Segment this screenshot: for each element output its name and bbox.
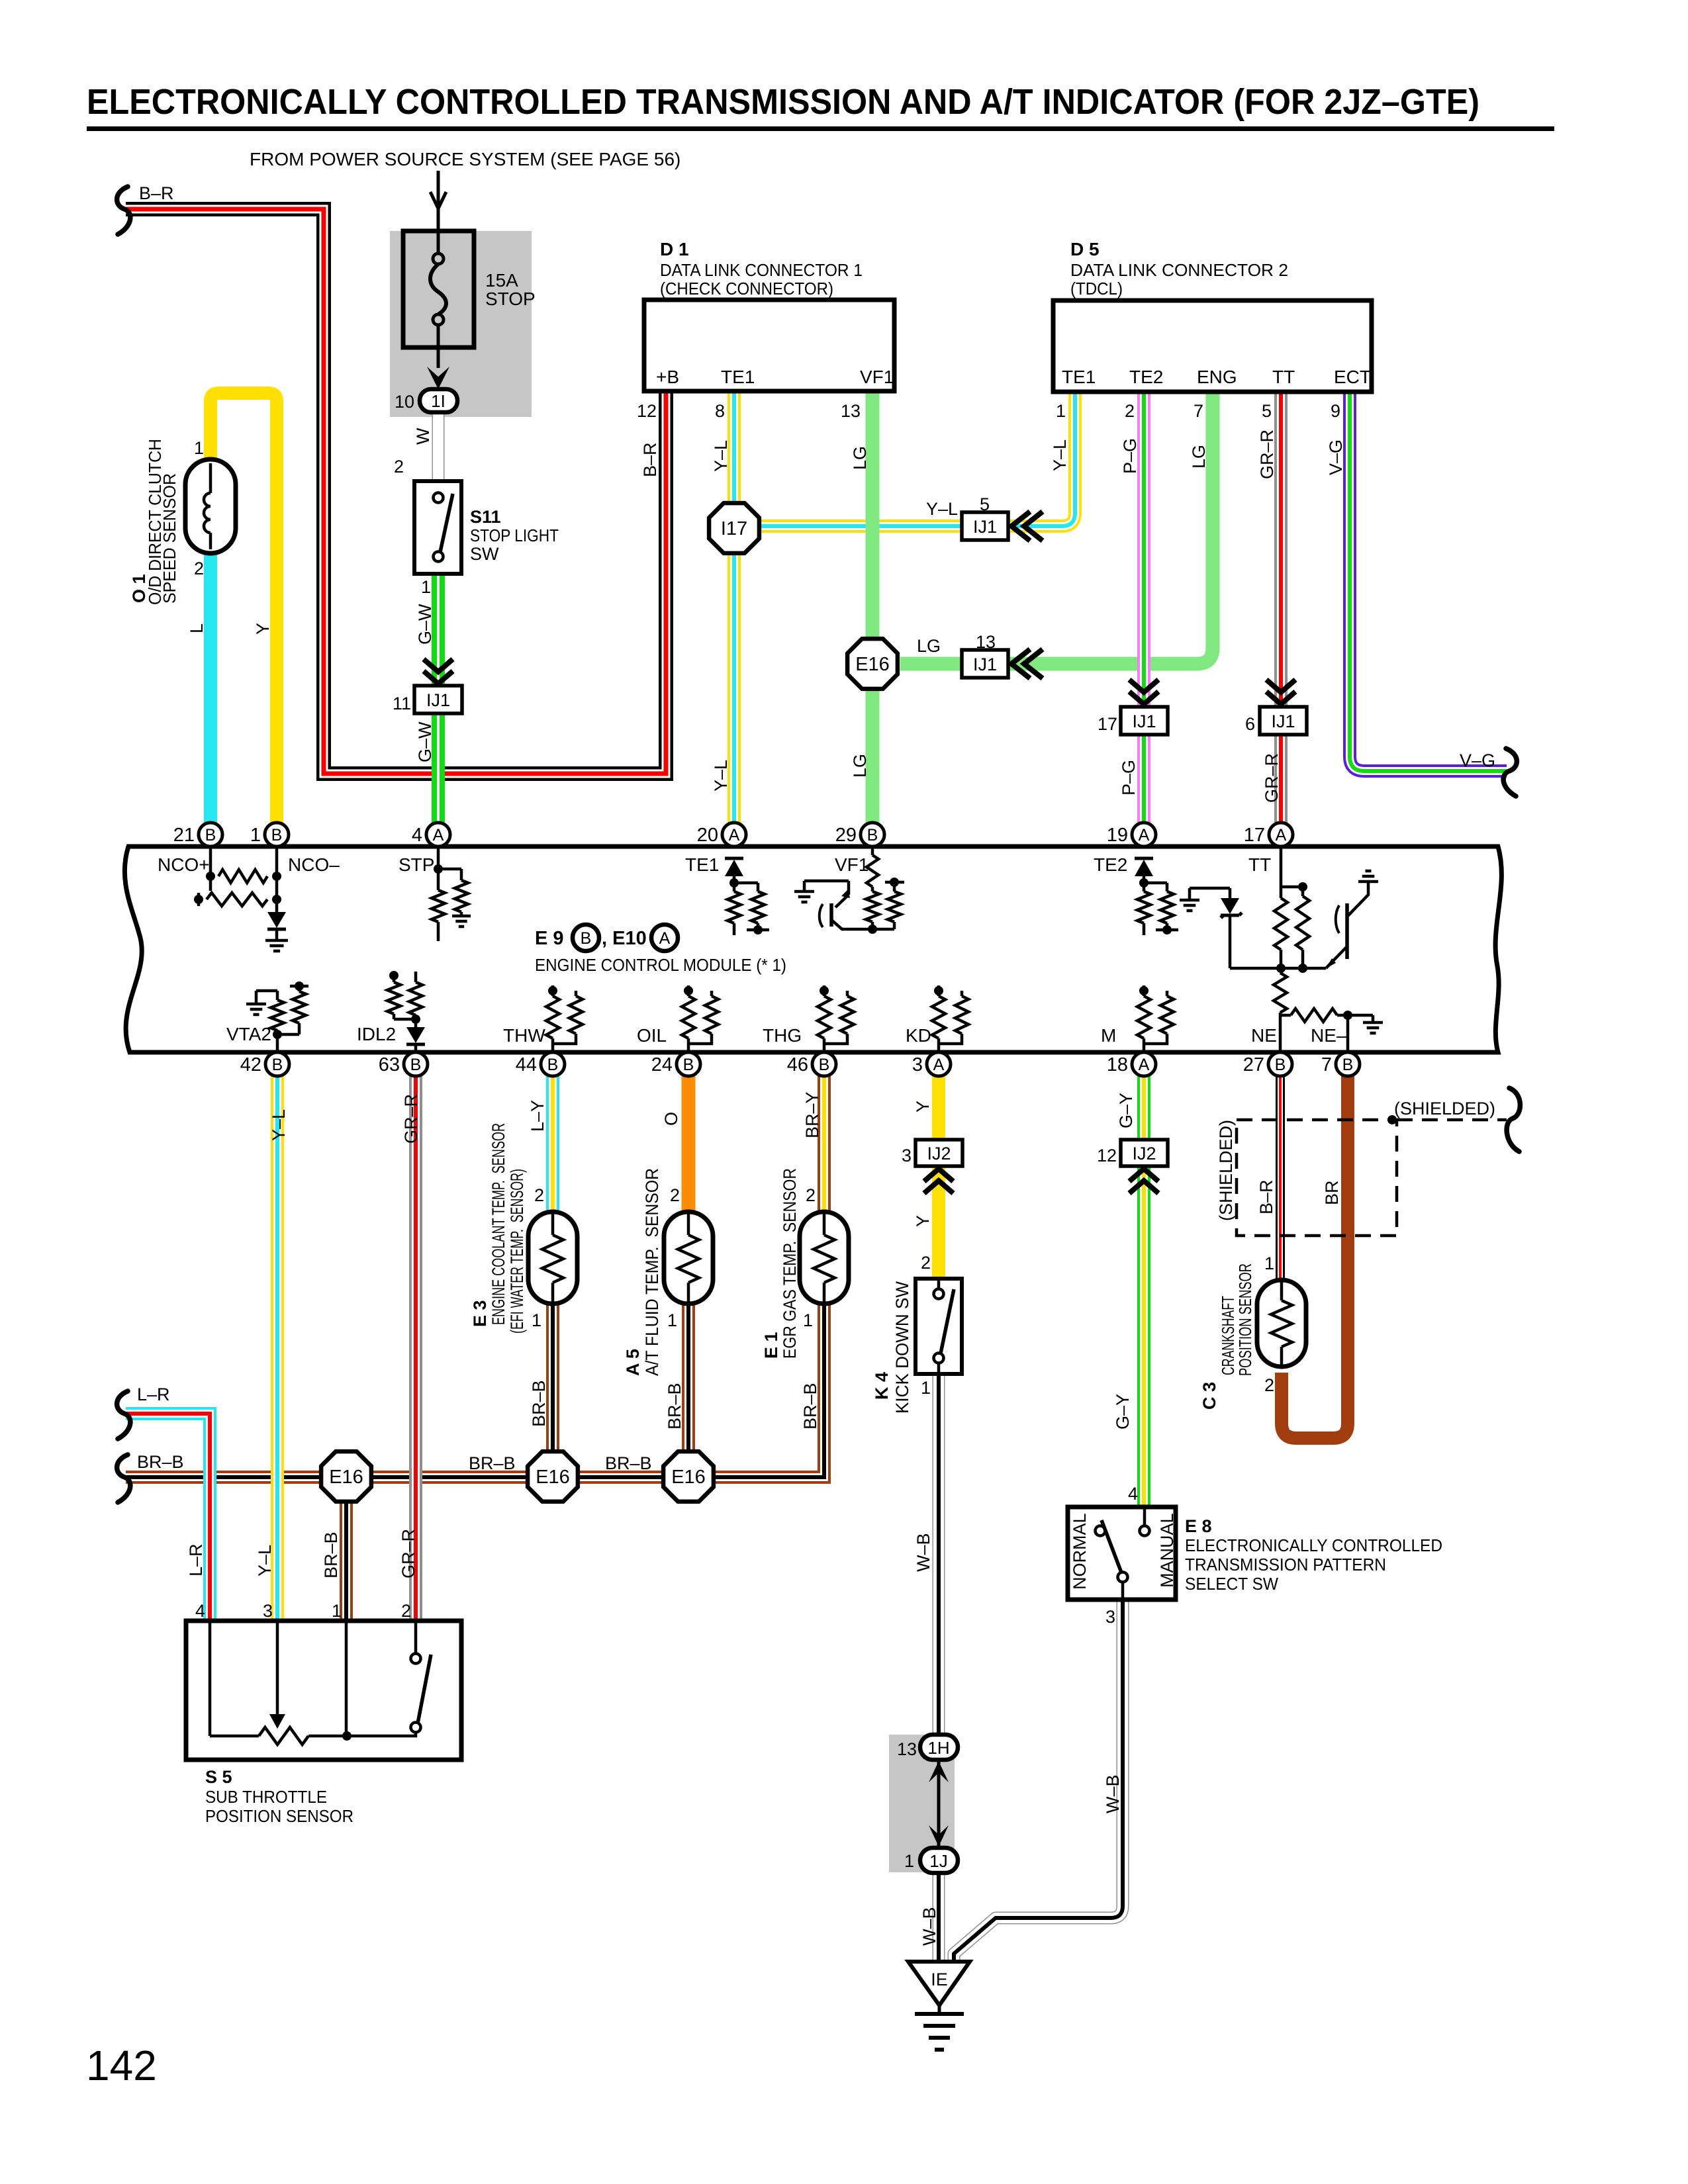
junction IJ1 pin17 on P-G: [1129, 680, 1158, 704]
ECM bottom pin B7: [1336, 1052, 1360, 1076]
svg-text:(CHECK CONNECTOR): (CHECK CONNECTOR): [660, 279, 833, 298]
svg-text:B–R: B–R: [640, 442, 660, 477]
svg-text:SELECT SW: SELECT SW: [1185, 1574, 1278, 1594]
svg-text:ENG: ENG: [1197, 367, 1237, 387]
shielded dashed line to break: [1397, 1118, 1507, 1122]
svg-text:IJ2: IJ2: [1132, 1144, 1156, 1163]
svg-text:LG: LG: [850, 754, 870, 778]
svg-text:Y–L: Y–L: [255, 1545, 275, 1576]
svg-text:2: 2: [394, 457, 404, 477]
svg-text:NORMAL: NORMAL: [1070, 1513, 1090, 1590]
component A5 AT fluid temp sensor: [664, 1212, 713, 1304]
ECM bottom pin B24: [677, 1052, 700, 1076]
svg-text:IJ1: IJ1: [973, 655, 997, 674]
svg-text:B: B: [819, 1056, 830, 1074]
svg-text:24: 24: [651, 1054, 673, 1075]
svg-text:A: A: [433, 826, 444, 844]
svg-text:MANUAL: MANUAL: [1157, 1513, 1177, 1588]
svg-text:7: 7: [1194, 401, 1203, 421]
svg-text:IJ1: IJ1: [973, 517, 997, 537]
svg-text:B: B: [410, 1056, 422, 1074]
svg-text:STOP LIGHT: STOP LIGHT: [470, 525, 559, 545]
gray background fuse area: [390, 231, 532, 417]
svg-text:63: 63: [379, 1054, 400, 1075]
svg-text:ELECTRONICALLY CONTROLLED: ELECTRONICALLY CONTROLLED: [1185, 1535, 1442, 1555]
svg-text:IDL2: IDL2: [357, 1024, 396, 1044]
wire W-B 1J to IE ground: [933, 1873, 945, 1963]
fuse 15A STOP: [403, 231, 474, 347]
wire BR crankshaft sensor loop to ECM B7: [1282, 1076, 1348, 1438]
svg-text:VF1: VF1: [835, 854, 868, 875]
wire B-R power feed U to D1 +B: [126, 209, 666, 774]
ECM top pin B1: [265, 823, 289, 846]
svg-text:11: 11: [393, 694, 411, 713]
svg-text:6: 6: [1245, 714, 1255, 734]
svg-text:5: 5: [1262, 401, 1272, 421]
svg-text:FROM POWER SOURCE SYSTEM (SEE: FROM POWER SOURCE SYSTEM (SEE PAGE 56): [250, 149, 680, 169]
svg-text:1: 1: [332, 1601, 342, 1621]
svg-text:ENGINE CONTROL MODULE (* 1): ENGINE CONTROL MODULE (* 1): [535, 955, 786, 975]
svg-text:IJ2: IJ2: [927, 1144, 951, 1163]
ECM bottom pin A18: [1132, 1052, 1156, 1076]
svg-text:DATA LINK CONNECTOR 1: DATA LINK CONNECTOR 1: [660, 260, 863, 280]
svg-text:LG: LG: [850, 446, 870, 470]
svg-text:1: 1: [250, 825, 261, 846]
wire W fuse 1I to stop light switch: [432, 412, 445, 481]
arrow into 1I: [427, 367, 449, 389]
svg-text:2: 2: [806, 1185, 816, 1205]
switch K4 kick down: [915, 1279, 962, 1374]
svg-text:13: 13: [841, 401, 861, 421]
svg-text:TE1: TE1: [721, 367, 755, 387]
svg-text:E16: E16: [855, 654, 890, 675]
ECM internal STP circuit: [437, 846, 440, 890]
svg-text:7: 7: [1321, 1054, 1332, 1075]
svg-text:A: A: [933, 1056, 945, 1074]
ECM internal TE1 circuit: [725, 857, 743, 860]
svg-text:B: B: [272, 1056, 283, 1074]
wire B-R ECM B27 to crankshaft sensor pin1: [1276, 1076, 1285, 1280]
svg-text:42: 42: [240, 1054, 261, 1075]
svg-text:E 9: E 9: [535, 928, 564, 949]
svg-text:2: 2: [670, 1185, 680, 1205]
wire BR-B coolant sensor to bus: [546, 1304, 559, 1477]
title rule: [87, 126, 1554, 131]
svg-text:4: 4: [412, 825, 422, 846]
ECM internal NE- circuit: [1346, 1015, 1350, 1052]
wire Y ECM A3 to kick down switch pin2: [932, 1076, 945, 1279]
svg-text:1: 1: [667, 1310, 677, 1330]
svg-text:STOP: STOP: [485, 289, 536, 309]
svg-text:G–Y: G–Y: [1116, 1093, 1136, 1128]
ground symbol below IE: [915, 2012, 964, 2016]
ECM bottom pin A3: [927, 1052, 951, 1076]
wire O ECM B24 to AT fluid sensor pin2: [682, 1076, 696, 1212]
component C3 crankshaft position sensor: [1257, 1280, 1306, 1367]
svg-text:2: 2: [194, 559, 204, 578]
mating arrows between 1H and 1J: [937, 1760, 941, 1848]
junction IJ1 pin5 with chevron: [962, 512, 1008, 540]
svg-text:L–R: L–R: [186, 1543, 206, 1576]
svg-text:12: 12: [637, 401, 657, 421]
svg-text:BR: BR: [1322, 1180, 1342, 1205]
wire W-B E8 pin3 to IE ground: [954, 1600, 1123, 1963]
svg-text:POSITION SENSOR: POSITION SENSOR: [205, 1806, 353, 1826]
svg-text:LG: LG: [917, 636, 941, 656]
svg-text:1: 1: [421, 577, 431, 597]
ECM bottom pin B46: [812, 1052, 836, 1076]
wire Y O1 pin1 to ECM B1: [211, 393, 277, 823]
svg-text:18: 18: [1107, 1054, 1128, 1075]
svg-text:POSITION SENSOR: POSITION SENSOR: [1235, 1263, 1255, 1376]
svg-text:10: 10: [395, 392, 414, 412]
junction ovals 1H and 1J: [920, 1735, 958, 1760]
svg-text:A: A: [1139, 1056, 1150, 1074]
svg-text:2: 2: [1264, 1375, 1274, 1395]
svg-text:3: 3: [912, 1054, 923, 1075]
svg-text:KD: KD: [906, 1025, 931, 1046]
svg-text:1H: 1H: [927, 1738, 949, 1758]
svg-text:M: M: [1101, 1025, 1116, 1046]
svg-text:(TDCL): (TDCL): [1070, 279, 1123, 298]
svg-text:TE1: TE1: [1062, 367, 1096, 387]
wire G-Y ECM A18 to E8 pin4: [1137, 1076, 1150, 1507]
wire L O1 pin2 to ECM B21: [204, 553, 217, 823]
svg-text:12: 12: [1097, 1146, 1117, 1165]
ECM internal resistor pairs THW OIL THG KD M: [551, 1038, 555, 1052]
svg-text:E16: E16: [536, 1467, 570, 1488]
ECM top pin A20: [722, 823, 746, 846]
svg-text:13: 13: [897, 1739, 917, 1759]
svg-text:IJ1: IJ1: [1132, 711, 1156, 731]
svg-text:NE: NE: [1251, 1025, 1277, 1046]
ECM internal IDL2 circuit: [414, 1044, 418, 1052]
svg-text:3: 3: [1105, 1607, 1115, 1627]
svg-text:K 4: K 4: [872, 1372, 892, 1400]
ECM bottom pin B63: [404, 1052, 428, 1076]
component E1 EGR gas temp sensor: [800, 1212, 849, 1304]
break symbol L-R left: [117, 1391, 130, 1439]
svg-text:V–G: V–G: [1326, 439, 1346, 475]
ECM internal VF1 circuit: [871, 846, 874, 855]
ECM bottom pin B27: [1268, 1052, 1292, 1076]
svg-text:E16: E16: [329, 1467, 363, 1488]
svg-text:GR–R: GR–R: [401, 1094, 421, 1144]
svg-text:A: A: [729, 826, 740, 844]
junction IJ1 pin6 on GR-R: [1266, 680, 1295, 704]
svg-text:OIL: OIL: [637, 1025, 667, 1046]
svg-text:W: W: [413, 428, 433, 445]
svg-text:P–G: P–G: [1120, 438, 1140, 474]
svg-text:VF1: VF1: [860, 367, 894, 387]
svg-text:E 8: E 8: [1185, 1516, 1212, 1536]
svg-text:Y–L: Y–L: [269, 1109, 289, 1141]
svg-text:B: B: [581, 929, 592, 948]
svg-text:P–G: P–G: [1119, 760, 1139, 796]
svg-text:44: 44: [516, 1054, 537, 1075]
switch E8 ECT pattern select: [1068, 1507, 1176, 1600]
svg-text:13: 13: [976, 632, 996, 652]
wire L-R break to S5 pin4: [126, 1414, 210, 1621]
wire G-W stop light switch to ECM STP A4: [432, 574, 445, 823]
svg-text:B–R: B–R: [139, 183, 174, 203]
svg-text:NCO+: NCO+: [158, 854, 210, 875]
svg-text:EGR GAS TEMP. SENSOR: EGR GAS TEMP. SENSOR: [780, 1168, 800, 1359]
switch S11 stop light: [414, 481, 461, 574]
wire Y-L I17 to ECM A20: [727, 553, 741, 823]
ECM top pin A19: [1132, 823, 1156, 846]
svg-text:1: 1: [1056, 401, 1066, 421]
svg-text:TE1: TE1: [685, 854, 719, 875]
svg-text:Y–L: Y–L: [1050, 439, 1070, 471]
svg-text:G–W: G–W: [415, 604, 435, 645]
svg-text:1: 1: [1264, 1253, 1274, 1273]
svg-text:(SHIELDED): (SHIELDED): [1216, 1120, 1236, 1221]
wire BR-Y ECM B46 to EGR sensor pin2: [818, 1076, 831, 1212]
svg-text:17: 17: [1098, 714, 1117, 734]
svg-text:(SHIELDED): (SHIELDED): [1394, 1099, 1495, 1118]
svg-text:THG: THG: [763, 1025, 802, 1046]
junction IJ2 pin12 on G-Y: [1121, 1140, 1168, 1166]
svg-text:20: 20: [697, 825, 718, 846]
svg-text:S11: S11: [470, 507, 501, 527]
ECM internal VTA2 circuit: [276, 1030, 279, 1052]
svg-text:STP: STP: [399, 854, 434, 875]
ECM top pin A4: [426, 823, 450, 846]
svg-text:D 5: D 5: [1070, 239, 1100, 259]
svg-text:B: B: [1275, 1056, 1286, 1074]
svg-text:G–Y: G–Y: [1113, 1394, 1133, 1430]
junction E16 on VF1 line: [847, 639, 898, 689]
wire LG E16 via IJ1 junction 13 to D5 ENG pin7: [900, 392, 1213, 664]
svg-text:E16: E16: [671, 1467, 706, 1488]
svg-text:2: 2: [921, 1253, 931, 1273]
wire Y-L D1 TE1 pin8 to I17: [727, 391, 741, 503]
junction IJ1 pin13 with chevron: [962, 650, 1008, 678]
svg-text:3: 3: [263, 1601, 273, 1621]
svg-text:5: 5: [980, 494, 990, 514]
svg-text:B: B: [205, 826, 216, 844]
svg-text:1: 1: [921, 1378, 931, 1398]
svg-text:C 3: C 3: [1199, 1382, 1219, 1410]
svg-text:BR–Y: BR–Y: [802, 1091, 822, 1138]
svg-text:17: 17: [1244, 825, 1265, 846]
wire GR-R ECM B63 to S5 pin2: [409, 1076, 422, 1621]
svg-text:SUB THROTTLE: SUB THROTTLE: [205, 1787, 327, 1807]
svg-text:TT: TT: [1248, 854, 1271, 875]
svg-text:SPEED SENSOR: SPEED SENSOR: [160, 473, 179, 604]
svg-text:NCO–: NCO–: [288, 854, 340, 875]
svg-text:G–W: G–W: [415, 721, 435, 762]
svg-text:ELECTRONICALLY CONTROLLED TRAN: ELECTRONICALLY CONTROLLED TRANSMISSION A…: [87, 82, 1479, 122]
svg-text:E 3: E 3: [470, 1300, 490, 1327]
svg-text:4: 4: [1128, 1484, 1138, 1504]
gray background 1H/1J junction area: [889, 1735, 955, 1872]
svg-text:Y: Y: [253, 623, 273, 635]
svg-text:THW: THW: [503, 1025, 545, 1046]
svg-text:E 1: E 1: [761, 1332, 781, 1359]
svg-text:GR–R: GR–R: [1262, 753, 1282, 803]
svg-text:W–B: W–B: [1103, 1774, 1123, 1813]
svg-text:GR–R: GR–R: [1257, 430, 1277, 479]
svg-text:A: A: [659, 929, 671, 948]
svg-text:1: 1: [532, 1310, 541, 1330]
svg-text:, E10: , E10: [602, 928, 647, 949]
svg-text:Y: Y: [913, 1215, 933, 1227]
svg-text:W–B: W–B: [919, 1907, 939, 1946]
svg-text:9: 9: [1331, 401, 1340, 421]
svg-text:TRANSMISSION PATTERN: TRANSMISSION PATTERN: [1185, 1555, 1386, 1574]
svg-text:IE: IE: [931, 1970, 948, 1989]
svg-text:TE2: TE2: [1094, 854, 1127, 875]
svg-text:27: 27: [1243, 1054, 1264, 1075]
break symbol B-R left: [117, 187, 130, 234]
svg-text:Y–L: Y–L: [711, 440, 731, 472]
power source feed arrow: [437, 171, 440, 231]
svg-text:S 5: S 5: [205, 1767, 232, 1787]
svg-text:2: 2: [401, 1601, 411, 1621]
svg-text:1: 1: [194, 438, 204, 458]
svg-text:3: 3: [902, 1146, 912, 1165]
svg-text:B: B: [867, 826, 878, 844]
svg-text:BR–B: BR–B: [321, 1531, 341, 1578]
svg-text:L–R: L–R: [137, 1385, 170, 1404]
connector D1 data link connector 1: [644, 300, 894, 391]
svg-text:BR–B: BR–B: [529, 1380, 549, 1427]
svg-text:B: B: [683, 1056, 694, 1074]
wire LG E16 to ECM B29: [866, 689, 880, 823]
svg-text:I17: I17: [721, 518, 747, 539]
svg-text:1J: 1J: [929, 1851, 947, 1871]
junction E16 bus 2: [528, 1451, 578, 1502]
svg-text:LG: LG: [1189, 445, 1209, 469]
svg-text:ECT: ECT: [1334, 367, 1371, 387]
svg-text:19: 19: [1107, 825, 1128, 846]
svg-text:VTA2: VTA2: [226, 1024, 271, 1044]
junction I17: [709, 503, 759, 553]
wire Y-L ECM B42 to S5 pin3: [271, 1076, 284, 1621]
svg-text:Y: Y: [913, 1101, 933, 1113]
svg-text:BR–B: BR–B: [605, 1453, 652, 1473]
svg-text:A/T FLUID TEMP. SENSOR: A/T FLUID TEMP. SENSOR: [642, 1168, 662, 1376]
svg-text:A: A: [1276, 826, 1287, 844]
svg-text:IJ1: IJ1: [1271, 711, 1295, 731]
junction IJ1 pin11 on G-W: [424, 659, 453, 684]
svg-text:TT: TT: [1272, 367, 1295, 387]
wire W-B kick down switch pin1 to 1H: [933, 1374, 945, 1735]
wire P-G D5 TE2 pin2 to ECM A19: [1137, 392, 1150, 823]
connector D5 data link connector 2: [1053, 300, 1372, 392]
svg-text:Y–L: Y–L: [711, 760, 731, 792]
svg-text:Y–L: Y–L: [926, 499, 958, 519]
svg-text:KICK DOWN SW: KICK DOWN SW: [892, 1281, 912, 1414]
svg-text:V–G: V–G: [1460, 751, 1495, 770]
svg-text:BR–B: BR–B: [469, 1453, 516, 1473]
svg-text:B: B: [271, 826, 283, 844]
svg-text:GR–R: GR–R: [399, 1529, 418, 1578]
ECM internal NE circuit: [1279, 1013, 1282, 1052]
svg-text:B–R: B–R: [1256, 1179, 1276, 1214]
svg-text:SW: SW: [470, 544, 499, 564]
wire Y-L I17 via IJ1 junction 5 to D5 TE1 pin1: [759, 392, 1075, 526]
component S5 sub throttle position sensor: [186, 1621, 461, 1760]
ECM bottom pin B44: [541, 1052, 565, 1076]
wire V-G D5 ECT pin9 to break: [1350, 392, 1507, 771]
svg-text:1: 1: [904, 1851, 914, 1871]
svg-text:DATA LINK CONNECTOR 2: DATA LINK CONNECTOR 2: [1070, 260, 1288, 280]
svg-text:A 5: A 5: [623, 1349, 643, 1376]
ECM top pin B29: [861, 823, 884, 846]
svg-text:2: 2: [1125, 401, 1135, 421]
svg-text:8: 8: [715, 401, 725, 421]
svg-text:21: 21: [173, 825, 195, 846]
wire GR-R D5 TT pin5 to ECM A17: [1274, 392, 1288, 823]
svg-text:L–Y: L–Y: [528, 1100, 547, 1132]
wire LG D1 VF1 pin13 to E16: [866, 391, 880, 639]
ECM internal TE2 circuit: [1135, 857, 1153, 860]
svg-text:W–B: W–B: [914, 1533, 933, 1572]
svg-text:29: 29: [835, 825, 857, 846]
svg-text:BR–B: BR–B: [800, 1383, 820, 1430]
ground IE triangle: [908, 1962, 970, 2005]
wire BR-B AT fluid sensor to bus: [682, 1304, 695, 1477]
ECM internal NCO circuit: [209, 846, 212, 891]
ECM internal TT circuit: [1280, 846, 1283, 898]
ECM top pin A17: [1269, 823, 1293, 846]
svg-text:1: 1: [803, 1310, 813, 1330]
svg-text:NE–: NE–: [1311, 1025, 1347, 1046]
svg-text:B: B: [547, 1056, 559, 1074]
svg-text:BR–B: BR–B: [137, 1452, 184, 1472]
connector oval 1I: [420, 389, 457, 412]
ECM top pin B21: [199, 823, 222, 846]
wire BR-B bus to EGR sensor: [126, 1304, 824, 1477]
svg-text:2: 2: [534, 1185, 544, 1205]
svg-text:D 1: D 1: [660, 239, 689, 259]
svg-text:15A: 15A: [485, 270, 518, 291]
svg-text:(EFI WATER TEMP. SENSOR): (EFI WATER TEMP. SENSOR): [507, 1169, 527, 1334]
break symbol BR-B left: [117, 1455, 130, 1502]
svg-text:1I: 1I: [431, 391, 445, 411]
component O1 O/D direct clutch speed sensor: [185, 459, 236, 553]
break symbol shielded line right: [1507, 1088, 1520, 1152]
ECM engine control module band outline: [124, 846, 1501, 1052]
svg-text:B: B: [1342, 1056, 1354, 1074]
wire BR-B bus branch to S5 pin1: [340, 1477, 353, 1621]
component E3 engine coolant temp sensor: [528, 1212, 577, 1304]
svg-text:A: A: [1139, 826, 1150, 844]
svg-text:IJ1: IJ1: [426, 690, 450, 710]
ECM bottom pin B42: [265, 1052, 289, 1076]
svg-text:O: O: [661, 1112, 681, 1126]
svg-text:4: 4: [195, 1601, 205, 1621]
svg-text:+B: +B: [656, 367, 679, 387]
shielded cable dashed box: [1237, 1120, 1397, 1236]
svg-text:L: L: [187, 623, 207, 633]
svg-text:BR–B: BR–B: [665, 1383, 684, 1430]
svg-text:46: 46: [787, 1054, 808, 1075]
svg-text:ENGINE COOLANT TEMP. SENSOR: ENGINE COOLANT TEMP. SENSOR: [489, 1123, 508, 1325]
svg-text:142: 142: [86, 2042, 157, 2089]
break symbol V-G right: [1503, 749, 1517, 796]
junction IJ2 pin3 on Y: [915, 1140, 962, 1166]
junction E16 bus 3: [663, 1451, 714, 1502]
wire L-Y ECM B44 to coolant sensor pin2: [546, 1076, 559, 1212]
svg-text:TE2: TE2: [1129, 367, 1163, 387]
junction E16 bus 1: [321, 1451, 371, 1502]
